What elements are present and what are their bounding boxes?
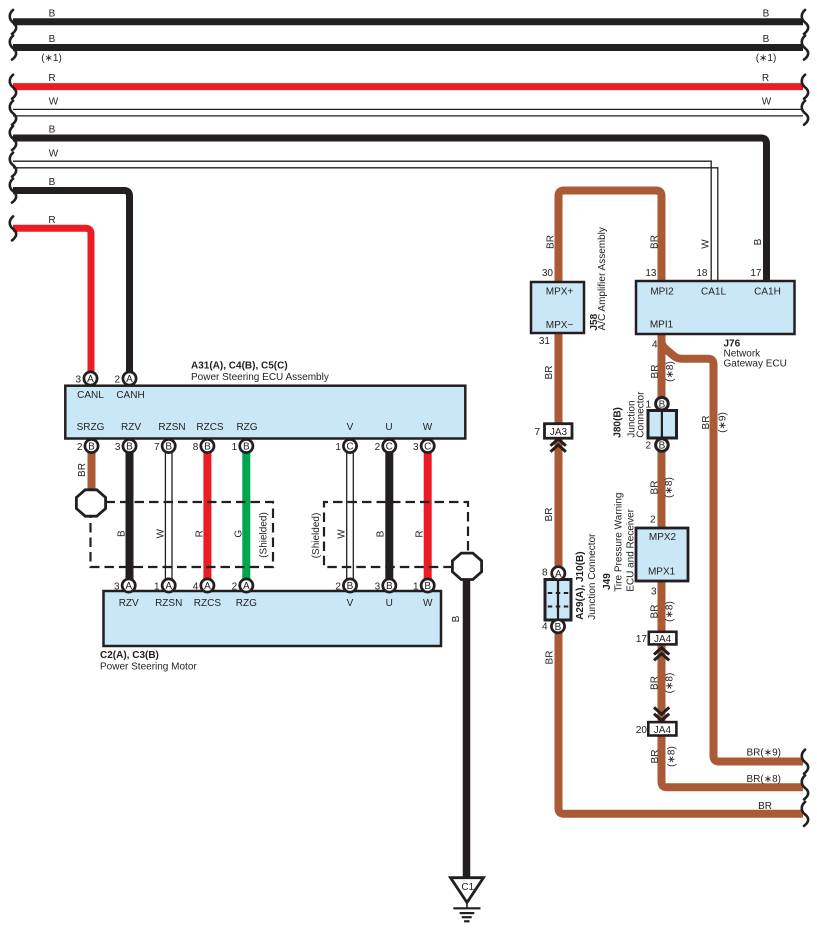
svg-text:BR: BR <box>544 366 555 380</box>
J58 A/C Amplifier Assembly box <box>531 227 608 333</box>
svg-text:BR: BR <box>545 651 556 665</box>
svg-text:13: 13 <box>645 268 657 279</box>
svg-text:ECU and Receiver: ECU and Receiver <box>626 508 637 591</box>
svg-text:B: B <box>165 442 172 453</box>
svg-text:B: B <box>451 615 462 622</box>
svg-text:(∗8): (∗8) <box>665 601 676 622</box>
ECU box A31(A),C4(B),C5(C) Power Steering ECU Assembly <box>65 360 465 438</box>
shield dashed box (right, V/U/W) <box>311 502 468 567</box>
wire B (5th, to J76 CA1H pin 17) <box>10 125 767 283</box>
svg-text:1: 1 <box>413 581 419 592</box>
wire BR (J58 MPX+ 30 loop to J76 MPI2 13) <box>546 191 662 284</box>
svg-text:CA1L: CA1L <box>701 287 726 298</box>
svg-text:W: W <box>337 529 348 539</box>
svg-text:RZV: RZV <box>119 598 139 609</box>
pin 7(B) RZSN <box>154 439 175 452</box>
svg-text:7: 7 <box>534 427 540 438</box>
svg-text:B: B <box>386 581 393 592</box>
shield ground octagon (left) <box>76 490 105 516</box>
wire W (top 4th, horizontal double line) <box>10 97 808 125</box>
svg-text:B: B <box>763 9 770 20</box>
svg-text:17: 17 <box>750 268 762 279</box>
svg-text:2: 2 <box>77 442 83 453</box>
wire B (RZV) <box>117 450 130 580</box>
pin 2(B) J80 bottom <box>645 439 668 452</box>
svg-text:B: B <box>659 441 666 452</box>
svg-text:Power Steering ECU Assembly: Power Steering ECU Assembly <box>191 372 329 383</box>
svg-text:4: 4 <box>652 340 658 351</box>
svg-text:RZCS: RZCS <box>194 598 222 609</box>
svg-text:R: R <box>48 73 55 84</box>
svg-text:B: B <box>376 530 387 537</box>
svg-text:A: A <box>126 374 133 385</box>
svg-text:2: 2 <box>650 515 656 526</box>
svg-text:2: 2 <box>335 581 341 592</box>
svg-text:3: 3 <box>413 442 419 453</box>
svg-text:18: 18 <box>696 268 708 279</box>
chevron down (above JA4 pin 20) <box>654 707 669 720</box>
pin 8(B) RZCS <box>193 439 214 452</box>
svg-text:B: B <box>126 442 133 453</box>
svg-text:3: 3 <box>114 581 120 592</box>
svg-text:31: 31 <box>539 336 551 347</box>
svg-text:RZV: RZV <box>121 422 141 433</box>
svg-text:A31(A), C4(B), C5(C): A31(A), C4(B), C5(C) <box>191 360 288 371</box>
svg-text:1: 1 <box>645 400 651 411</box>
svg-text:C: C <box>386 442 393 453</box>
svg-text:BR: BR <box>77 463 88 477</box>
svg-text:MPX1: MPX1 <box>648 567 676 578</box>
svg-text:BR: BR <box>650 365 661 379</box>
svg-text:3: 3 <box>115 442 121 453</box>
svg-text:JA4: JA4 <box>654 725 672 736</box>
wire W (6th, double line, to J76 CA1L pin 18) <box>10 148 718 283</box>
svg-text:30: 30 <box>542 268 554 279</box>
svg-text:C: C <box>424 442 431 453</box>
svg-text:(∗1): (∗1) <box>756 53 777 64</box>
svg-text:U: U <box>386 598 393 609</box>
pin 3(A) CANL <box>75 372 97 385</box>
svg-text:(∗8): (∗8) <box>664 477 675 498</box>
shield dashed box (left, RZV/RZSN/RZCS/RZG) <box>91 502 274 567</box>
svg-text:R: R <box>762 73 769 84</box>
pin 1(C) V <box>335 439 356 452</box>
svg-text:RZCS: RZCS <box>196 422 224 433</box>
svg-text:W: W <box>701 239 712 249</box>
svg-text:G: G <box>234 530 245 538</box>
svg-text:2: 2 <box>114 374 120 385</box>
svg-text:J80(B): J80(B) <box>613 407 624 438</box>
svg-text:BR(∗9): BR(∗9) <box>747 748 782 759</box>
svg-text:J49: J49 <box>602 573 613 590</box>
svg-text:A: A <box>87 374 94 385</box>
svg-text:MPI2: MPI2 <box>650 287 674 298</box>
svg-text:CANH: CANH <box>116 390 144 401</box>
A29(A),J10(B) junction connector grid box <box>545 533 598 620</box>
pin 3(A) motor RZV <box>114 579 135 592</box>
J76 Network Gateway ECU box <box>636 281 795 370</box>
svg-text:B: B <box>49 177 56 188</box>
svg-text:(Shielded): (Shielded) <box>259 512 270 558</box>
JA4 junction box (pin 20) <box>636 722 677 736</box>
wire BR (branch *9 from pin 4 to BR(*9) exit) <box>662 343 809 774</box>
svg-text:V: V <box>347 598 354 609</box>
wire BR (J76 MPI1 4 down through J80, J49 MPX, JA4 to BR(*8) exit) <box>650 333 809 799</box>
wire B (shield octagon to ground C1) <box>451 578 467 878</box>
svg-text:BR: BR <box>650 235 661 249</box>
svg-text:JA3: JA3 <box>550 427 568 438</box>
J49 MPX2/MPX1 Tire Pressure Warning ECU box <box>602 493 688 592</box>
svg-text:(Shielded): (Shielded) <box>311 513 322 559</box>
wire R (top 3rd, horizontal) <box>10 73 808 99</box>
svg-text:8: 8 <box>542 567 548 578</box>
wire W (RZSN, double line) <box>156 450 173 580</box>
svg-text:1: 1 <box>154 581 160 592</box>
wire R (W phase) <box>415 450 428 580</box>
svg-text:Tire Pressure Warning: Tire Pressure Warning <box>614 493 625 592</box>
pin 2(B) motor V <box>335 579 356 592</box>
svg-text:B: B <box>49 125 56 136</box>
svg-text:RZSN: RZSN <box>158 422 185 433</box>
pin 2(A) motor RZG <box>232 579 253 592</box>
svg-text:3: 3 <box>75 374 81 385</box>
svg-text:Junction Connector: Junction Connector <box>587 533 598 620</box>
svg-text:U: U <box>385 422 392 433</box>
svg-text:BR: BR <box>758 801 772 812</box>
svg-text:A: A <box>165 581 172 592</box>
svg-text:3: 3 <box>375 581 381 592</box>
svg-text:Power Steering Motor: Power Steering Motor <box>100 662 197 673</box>
chevron up (below JA3) <box>551 439 566 452</box>
wire BR (J58 MPX- 31 down through JA3, A29 junction, to bottom BR exit) <box>544 332 808 826</box>
svg-text:17: 17 <box>636 634 648 645</box>
svg-text:MPX+: MPX+ <box>546 287 574 298</box>
wire B (top 2nd, horizontal, *1) <box>10 34 808 64</box>
svg-text:B: B <box>49 9 56 20</box>
svg-text:20: 20 <box>636 725 648 736</box>
svg-text:BR: BR <box>650 676 661 690</box>
Motor box C2(A),C3(B) Power Steering Motor <box>100 591 441 673</box>
svg-text:JA4: JA4 <box>654 634 672 645</box>
svg-text:3: 3 <box>651 586 657 597</box>
svg-text:R: R <box>48 215 55 226</box>
svg-text:A: A <box>555 569 562 580</box>
svg-text:R: R <box>195 530 206 537</box>
svg-text:BR: BR <box>650 481 661 495</box>
svg-text:A/C Amplifier Assembly: A/C Amplifier Assembly <box>597 227 608 330</box>
svg-text:W: W <box>49 97 59 108</box>
svg-text:Connector: Connector <box>636 391 647 438</box>
pin 8(A) A29 top <box>542 567 565 580</box>
pin 1(B) J80 top <box>645 397 668 410</box>
svg-text:C2(A), C3(B): C2(A), C3(B) <box>100 650 159 661</box>
shield ground octagon (right) <box>452 553 481 579</box>
svg-text:W: W <box>49 148 59 159</box>
J80(B) junction connector box <box>613 391 677 438</box>
svg-text:B: B <box>763 34 770 45</box>
pin 1(B) RZG <box>232 439 253 452</box>
wire B (U phase) <box>376 450 390 580</box>
wire B (7th, to CANH pin 2A) <box>10 177 130 374</box>
svg-text:R: R <box>415 530 426 537</box>
svg-text:CANL: CANL <box>77 390 104 401</box>
svg-text:MPX−: MPX− <box>546 320 574 331</box>
svg-text:W: W <box>423 598 433 609</box>
svg-text:BR: BR <box>546 235 557 249</box>
svg-text:B: B <box>243 442 250 453</box>
pin 1(A) motor RZSN <box>154 579 175 592</box>
svg-text:Gateway ECU: Gateway ECU <box>724 359 787 370</box>
wire G (RZG) <box>234 450 247 580</box>
svg-text:A: A <box>243 581 250 592</box>
pin 1(B) motor W <box>413 579 434 592</box>
svg-text:C1: C1 <box>461 882 474 893</box>
svg-text:W: W <box>762 97 772 108</box>
svg-text:RZSN: RZSN <box>155 598 182 609</box>
svg-text:A: A <box>125 581 132 592</box>
svg-text:B: B <box>88 442 95 453</box>
svg-text:B: B <box>659 399 666 410</box>
svg-text:SRZG: SRZG <box>77 422 105 433</box>
pin 3(B) motor U <box>375 579 396 592</box>
svg-text:B: B <box>204 442 211 453</box>
ground symbol C1 <box>451 878 484 922</box>
svg-text:BR: BR <box>701 416 712 430</box>
svg-text:W: W <box>423 422 433 433</box>
svg-text:V: V <box>347 422 354 433</box>
pin 4(A) motor RZCS <box>193 579 214 592</box>
svg-text:BR: BR <box>544 508 555 522</box>
wire R (8th, to CANL pin 3A) <box>10 215 91 374</box>
svg-text:CA1H: CA1H <box>754 287 781 298</box>
svg-text:BR: BR <box>650 605 661 619</box>
svg-text:8: 8 <box>193 442 199 453</box>
pin 3(C) W <box>413 439 434 452</box>
svg-text:(∗8): (∗8) <box>667 746 678 767</box>
svg-text:B: B <box>753 238 764 245</box>
svg-text:B: B <box>49 34 56 45</box>
chevron up (below JA4 pin 17) <box>654 648 669 661</box>
svg-text:4: 4 <box>193 581 199 592</box>
pin 2(C) U <box>375 439 396 452</box>
svg-text:2: 2 <box>375 442 381 453</box>
svg-text:B: B <box>555 622 562 633</box>
wire B (top 1st, horizontal) <box>10 9 808 34</box>
svg-text:MPI1: MPI1 <box>650 319 674 330</box>
svg-text:4: 4 <box>542 622 548 633</box>
pin 4(B) A29 bottom <box>542 620 565 633</box>
svg-text:B: B <box>424 581 431 592</box>
pin 2(B) SRZG <box>77 439 98 452</box>
svg-text:BR(∗8): BR(∗8) <box>747 774 782 785</box>
svg-text:MPX2: MPX2 <box>649 532 677 543</box>
svg-text:B: B <box>117 530 128 537</box>
svg-text:A29(A), J10(B): A29(A), J10(B) <box>575 551 586 619</box>
svg-text:RZG: RZG <box>236 598 257 609</box>
svg-text:(∗8): (∗8) <box>665 673 676 694</box>
svg-text:B: B <box>347 581 354 592</box>
wire R (RZCS) <box>195 450 208 580</box>
wire W (V phase, double line) <box>337 450 354 580</box>
svg-text:(∗9): (∗9) <box>717 412 728 433</box>
svg-text:(∗1): (∗1) <box>41 53 62 64</box>
svg-text:BR: BR <box>650 750 661 764</box>
svg-text:7: 7 <box>154 442 160 453</box>
JA3 junction box (pin 7) <box>534 424 572 439</box>
svg-text:W: W <box>156 528 167 538</box>
svg-text:(∗8): (∗8) <box>665 361 676 382</box>
pin 2(A) CANH <box>114 372 136 385</box>
svg-text:2: 2 <box>645 440 651 451</box>
svg-text:C: C <box>346 442 353 453</box>
svg-text:1: 1 <box>232 442 238 453</box>
JA4 junction box (pin 17) <box>636 632 677 645</box>
svg-text:1: 1 <box>335 442 341 453</box>
pin 3(B) RZV <box>115 439 136 452</box>
svg-text:A: A <box>204 581 211 592</box>
svg-text:2: 2 <box>232 581 238 592</box>
wire BR (SRZG to shield octagon) <box>77 450 92 492</box>
svg-text:RZG: RZG <box>236 422 257 433</box>
